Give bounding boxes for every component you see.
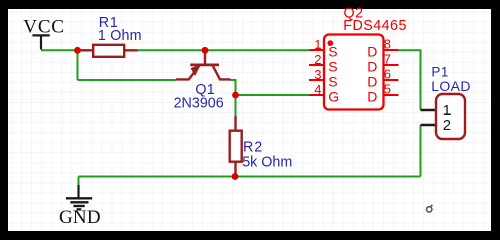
- IC Q2 FDS4465: [309, 35, 399, 110]
- wire node B to R2: [235, 95, 237, 116]
- svg-text:P1: P1: [431, 64, 449, 79]
- svg-text:6: 6: [384, 67, 391, 82]
- svg-text:1: 1: [314, 37, 321, 52]
- junction node A: [74, 47, 81, 54]
- transistor Q1: [176, 50, 231, 79]
- wire to ground symbol: [78, 177, 80, 186]
- svg-text:2: 2: [443, 117, 451, 134]
- resistor R1: [78, 45, 138, 57]
- svg-text:LOAD: LOAD: [431, 78, 471, 94]
- wire Q2 pin 8 to P1 pin 1: [398, 50, 421, 110]
- svg-text:R2: R2: [243, 140, 263, 156]
- svg-text:GND: GND: [59, 207, 101, 228]
- resistor R2: [230, 116, 242, 177]
- junction at R2 bottom: [232, 173, 239, 180]
- wire VCC to node A: [41, 49, 78, 51]
- power symbol VCC: [23, 16, 64, 49]
- svg-text:VCC: VCC: [23, 16, 64, 37]
- svg-text:1 Ohm: 1 Ohm: [98, 28, 142, 44]
- wire GND rail to P1 pin 2: [420, 125, 422, 177]
- pin number 1: [314, 37, 321, 52]
- svg-text:FDS4465: FDS4465: [343, 18, 407, 34]
- cursor mark: [427, 205, 433, 212]
- wire GND rail: [79, 176, 421, 178]
- svg-text:S: S: [328, 58, 337, 74]
- wire Q1 collector to node B: [231, 80, 236, 95]
- wire to Q1 emitter: [78, 79, 177, 81]
- svg-text:3: 3: [314, 67, 321, 82]
- svg-text:4: 4: [314, 82, 321, 97]
- wire R1 to Q2 pin 1: [138, 49, 309, 51]
- svg-text:D: D: [367, 43, 377, 59]
- svg-text:D: D: [367, 58, 377, 74]
- connector P1: [421, 94, 466, 139]
- svg-text:8: 8: [384, 37, 391, 52]
- wire node A down: [77, 50, 79, 80]
- junction node B: [232, 92, 239, 99]
- svg-text:2N3906: 2N3906: [174, 95, 224, 111]
- svg-text:S: S: [328, 43, 337, 59]
- junction at Q1 emitter rail: [202, 47, 209, 54]
- svg-text:5k Ohm: 5k Ohm: [242, 155, 292, 171]
- svg-text:7: 7: [384, 52, 391, 67]
- svg-text:D: D: [367, 88, 377, 104]
- svg-text:5: 5: [384, 82, 391, 97]
- svg-text:S: S: [328, 73, 337, 89]
- wire node B to Q2 pin 4: [236, 94, 310, 96]
- ground symbol GND: [59, 185, 101, 228]
- pin number 1 P1: [443, 102, 451, 119]
- svg-text:2: 2: [314, 52, 321, 67]
- svg-text:D: D: [367, 73, 377, 89]
- svg-text:G: G: [328, 88, 339, 104]
